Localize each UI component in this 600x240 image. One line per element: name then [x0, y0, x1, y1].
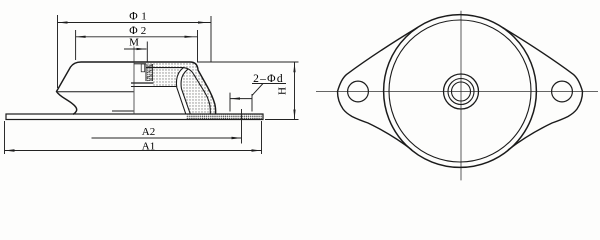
dimension A2 — [92, 126, 242, 139]
threaded boss bottom line — [131, 82, 154, 84]
cap underside and inner skirt edge — [147, 68, 211, 114]
hole centerline A2 extension — [241, 109, 243, 144]
part centerline — [133, 47, 135, 115]
cap inner rim circle — [389, 20, 531, 162]
svg-text:M: M — [129, 37, 139, 49]
thread band right edge — [152, 64, 154, 81]
svg-text:A1: A1 — [142, 140, 155, 152]
thread band stipple — [147, 64, 153, 81]
rubber inner wall edge 1 — [176, 68, 185, 114]
right bolt hole — [552, 81, 573, 102]
dimension M thread callout — [124, 37, 147, 62]
dimension A1 — [5, 121, 262, 154]
dimension Phi1 — [58, 11, 212, 89]
dimension Phi2 — [76, 25, 198, 62]
flange outline right lobe — [503, 28, 583, 151]
dimension 2-Phi-d hole callout — [230, 73, 286, 112]
rubber inner wall edge 2 — [181, 69, 190, 114]
base plate — [6, 114, 263, 120]
cap outer circle — [384, 15, 537, 168]
svg-text:1: 1 — [141, 11, 147, 23]
dimension H — [197, 62, 299, 120]
base plate section stipple — [186, 115, 263, 119]
svg-text:A2: A2 — [142, 126, 155, 138]
section waist line right — [131, 86, 177, 88]
rubber section stipple wall — [181, 69, 210, 114]
top view horizontal centerline — [316, 91, 598, 93]
thread relief box — [141, 64, 145, 72]
svg-text:2: 2 — [141, 25, 147, 37]
svg-text:2–Φd: 2–Φd — [253, 73, 284, 85]
thread band hatch — [147, 65, 153, 82]
metal cap top surface — [81, 61, 190, 63]
svg-text:Φ: Φ — [129, 11, 138, 23]
top view vertical centerline — [460, 11, 462, 181]
left bolt hole — [348, 81, 369, 102]
svg-text:H: H — [277, 87, 289, 95]
svg-text:Φ: Φ — [129, 25, 138, 37]
cap/skirt band section stipple — [147, 63, 216, 114]
rubber section stipple upper — [153, 64, 184, 87]
rubber waist line left — [57, 91, 134, 93]
thread hole wall line — [145, 64, 147, 81]
recess floor line — [134, 63, 146, 65]
central boss outer circle — [444, 74, 479, 109]
inner core bottom edge line — [112, 110, 134, 112]
thread minor circle — [452, 82, 471, 101]
cap right corner and outer skirt edge — [190, 62, 216, 114]
thread major circle — [448, 79, 474, 105]
flange outline left lobe — [338, 28, 418, 151]
rubber mount body left profile — [57, 62, 82, 114]
